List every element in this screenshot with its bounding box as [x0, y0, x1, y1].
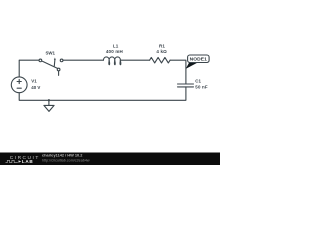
voltage source V1: [11, 77, 27, 93]
footer logo arrow: [19, 160, 22, 162]
wire resistor to node corner and down to capacitor: [170, 60, 186, 84]
svg-text:http://circuitlab.com/c2eab4w: http://circuitlab.com/c2eab4w: [42, 159, 90, 163]
svg-text:NODE1: NODE1: [190, 57, 208, 63]
svg-text:50 nF: 50 nF: [195, 84, 208, 89]
footer logo waveform: [6, 160, 18, 162]
inductor L1: [103, 57, 120, 65]
svg-text:L1: L1: [113, 44, 119, 49]
svg-text:LAB: LAB: [22, 159, 34, 164]
wire top rail from V1 to switch: [19, 60, 39, 77]
capacitor C1: [178, 84, 194, 87]
svg-text:R1: R1: [159, 44, 165, 49]
ground: [44, 99, 54, 111]
svg-text:SW1: SW1: [45, 51, 55, 56]
svg-text:40 V: 40 V: [31, 85, 40, 90]
label V1 value: [31, 79, 40, 90]
switch SW1: [39, 58, 63, 76]
label L1 value: [106, 44, 123, 55]
wire capacitor bottom to bottom rail back to V1: [19, 87, 186, 100]
node NODE1 flag: [186, 55, 209, 69]
svg-text:4 kΩ: 4 kΩ: [156, 49, 167, 54]
svg-text:C1: C1: [195, 78, 201, 83]
label C1 value: [195, 78, 208, 89]
footer bar: [0, 153, 220, 166]
resistor R1: [150, 57, 171, 63]
label R1 value: [156, 44, 167, 54]
svg-text:V1: V1: [31, 79, 37, 84]
wire inductor to resistor: [120, 59, 149, 61]
wire switch to inductor: [63, 59, 103, 61]
svg-text:400 mH: 400 mH: [106, 49, 123, 54]
svg-text:charley1142 / HW 10.2: charley1142 / HW 10.2: [42, 153, 83, 158]
